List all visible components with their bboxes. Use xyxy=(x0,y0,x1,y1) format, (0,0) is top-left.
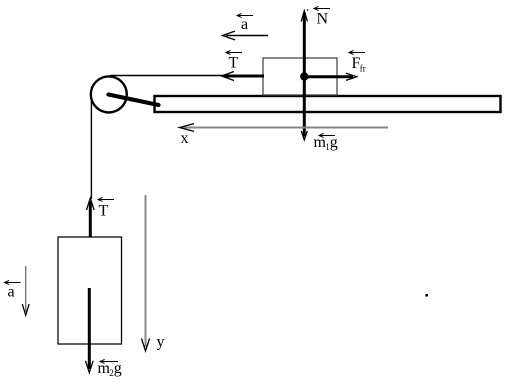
svg-text:g: g xyxy=(114,360,122,377)
svg-text:g: g xyxy=(330,134,338,151)
svg-text:T: T xyxy=(99,203,109,220)
svg-text:T: T xyxy=(229,55,239,72)
svg-text:a: a xyxy=(241,16,248,33)
svg-text:fr: fr xyxy=(360,64,366,74)
svg-text:x: x xyxy=(181,130,189,147)
svg-text:a: a xyxy=(8,284,15,301)
svg-text:N: N xyxy=(317,11,329,28)
svg-text:y: y xyxy=(157,334,165,351)
